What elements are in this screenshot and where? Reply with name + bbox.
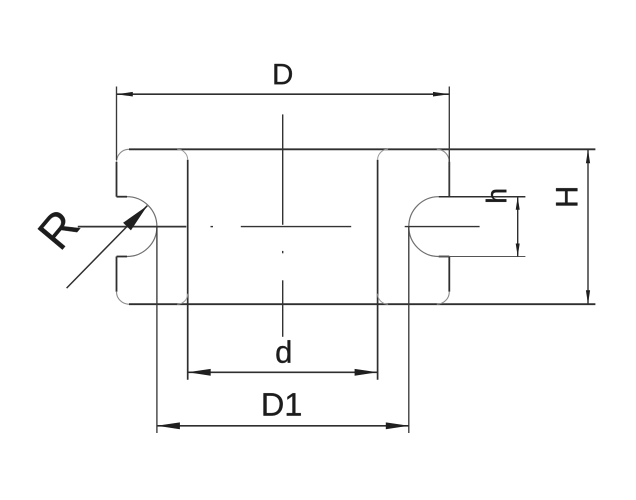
outer corner fillet top-right: [437, 149, 450, 162]
bore left wall plus d extension line: [187, 160, 189, 380]
label D1: [264, 393, 301, 415]
right groove arc: [409, 197, 439, 257]
d arrow left: [188, 369, 211, 376]
D1 arrow left: [157, 422, 180, 429]
D arrow left: [117, 92, 133, 97]
horizontal centerline right segment: [405, 226, 480, 228]
left groove top stub: [117, 196, 128, 198]
vertical centerline upper segment: [282, 114, 284, 224]
bore fillet top-right: [378, 149, 389, 160]
left outer edge upper segment: [116, 162, 118, 197]
right outer edge upper segment: [448, 162, 450, 197]
horizontal centerline dot: [211, 226, 214, 228]
d dimension line: [188, 371, 378, 373]
D1 dimension right extension line: [408, 227, 410, 433]
D1 dimension line: [157, 425, 409, 427]
outer corner fillet top-left: [117, 149, 130, 162]
R leader line: [67, 206, 148, 288]
D1 arrow right: [386, 422, 409, 429]
R leader arrowhead: [123, 206, 147, 231]
h arrow top: [516, 197, 520, 210]
h dimension line: [517, 197, 519, 257]
h arrow bottom: [516, 244, 520, 257]
H arrow top: [586, 149, 590, 163]
bore fillet bottom-left: [177, 294, 188, 305]
bore fillet top-left: [177, 149, 188, 160]
right outer edge lower segment: [448, 257, 450, 292]
label H (rotated): [556, 188, 577, 205]
bore fillet bottom-right: [378, 294, 389, 305]
D arrow right: [433, 92, 449, 97]
right groove bottom stub: [439, 256, 450, 258]
label h (rotated): [486, 190, 507, 202]
d arrow right: [355, 369, 378, 376]
label d: [276, 340, 290, 363]
D1 dimension left extension line: [156, 227, 158, 433]
left outer edge lower segment: [116, 257, 118, 292]
vertical centerline dot: [282, 251, 284, 253]
D dimension left extension line: [116, 87, 118, 161]
D dimension right extension line: [448, 87, 450, 197]
horizontal centerline left segment: [78, 226, 187, 228]
H dimension line: [587, 149, 589, 304]
outer corner fillet bottom-left: [117, 292, 130, 305]
h bottom extension line: [439, 256, 526, 258]
D dimension line: [117, 93, 450, 95]
vertical centerline lower segment: [282, 280, 284, 337]
label D: [274, 64, 291, 84]
left groove bottom stub: [117, 256, 128, 258]
label R (rotated): [38, 208, 81, 250]
outer corner fillet bottom-right: [437, 292, 450, 305]
horizontal centerline middle segment: [241, 226, 351, 228]
bore right wall plus d extension line: [377, 160, 379, 380]
H arrow bottom: [586, 290, 590, 304]
h top extension line (continues groove stub): [439, 196, 526, 198]
grommet top face (also H extension line): [129, 148, 595, 150]
left groove arc (radius R): [127, 197, 157, 257]
grommet bottom face (also H extension line): [129, 303, 595, 305]
